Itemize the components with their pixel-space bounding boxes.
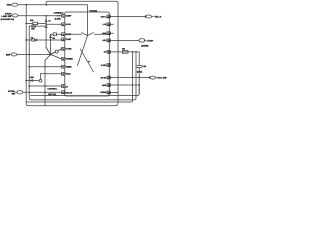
pin box R5: [107, 51, 110, 54]
pin box L6: [62, 57, 65, 60]
wire top rail T1 + loop right + loop bottom: [26, 1, 118, 106]
svg-text:(1.6W): (1.6W): [55, 17, 61, 20]
wire R9 stub: [110, 91, 118, 93]
svg-text:(3.4CP/4W ×2): (3.4CP/4W ×2): [1, 18, 15, 21]
label ACCEL SW: [8, 90, 16, 96]
pin box L3: [62, 33, 65, 36]
pin box R4: [107, 39, 110, 42]
wire R8 out: [110, 84, 139, 86]
wire to pin L9: [29, 85, 61, 87]
node star: [45, 48, 62, 61]
svg-text:CONTROL: CONTROL: [47, 88, 58, 91]
node E: [25, 80, 27, 82]
connector P2 STOP SW: [10, 14, 18, 17]
svg-text:TAIL R: TAIL R: [154, 15, 161, 18]
node C: [45, 15, 47, 17]
pin box L9: [62, 85, 65, 88]
svg-text:ACC SW: ACC SW: [158, 77, 168, 80]
resistor R1: [25, 22, 61, 24]
svg-text:COMP: COMP: [66, 15, 72, 18]
lamp L2: [55, 50, 58, 53]
pin box M1: [53, 33, 61, 36]
resistor R3: [122, 51, 128, 54]
wire busA: [31, 85, 140, 96]
svg-text:F DET: F DET: [66, 38, 72, 41]
diode LED1: [26, 79, 39, 81]
node G: [44, 85, 46, 87]
pin box L8: [62, 72, 65, 75]
svg-text:(21/5W): (21/5W): [141, 44, 148, 47]
wire R3 stub: [110, 32, 113, 34]
diode D1: [45, 16, 47, 48]
svg-text:OUT 1: OUT 1: [101, 15, 107, 18]
node K: [138, 77, 140, 79]
wire R5 out: [109, 51, 139, 53]
resistor R2: [25, 39, 61, 41]
svg-text:STOP: STOP: [147, 39, 153, 42]
pin box L1: [62, 14, 65, 17]
svg-text:P GND: P GND: [66, 48, 73, 51]
svg-text:1M: 1M: [122, 47, 125, 50]
wire W4 to pin L10: [23, 91, 62, 93]
node A: [25, 4, 27, 6]
svg-text:POWER: POWER: [66, 58, 74, 61]
wire v2 branch to L7: [29, 66, 61, 68]
node B: [45, 4, 47, 6]
IC pin labels left: [66, 15, 74, 95]
pin box L5: [62, 47, 65, 50]
wire R1 out to P4: [110, 16, 145, 18]
svg-text:L IN: L IN: [103, 23, 107, 26]
pin box R2: [107, 23, 110, 26]
svg-text:LED: LED: [30, 76, 35, 79]
diode ZD1: [49, 34, 53, 54]
svg-text:TIMER: TIMER: [66, 66, 73, 69]
node H: [44, 91, 46, 93]
connector P6: [150, 76, 158, 79]
label STOP LAMP SW: [2, 12, 12, 18]
pin box R7: [107, 76, 110, 79]
node D: [28, 54, 30, 56]
wire R7 out: [110, 77, 149, 79]
pin box L2: [62, 23, 65, 26]
pin box L4: [62, 38, 65, 41]
svg-text:V REF: V REF: [101, 64, 107, 67]
diode D2: [45, 25, 47, 27]
pin digits left: [62, 15, 65, 94]
connector P5: [139, 39, 146, 42]
svg-text:LO IN: LO IN: [66, 23, 72, 26]
pin digits right: [108, 16, 111, 95]
pin box R3: [107, 32, 110, 35]
svg-text:LAMP SW: LAMP SW: [2, 15, 12, 18]
wire busC: [26, 98, 132, 102]
wire star branch down: [44, 61, 46, 106]
svg-text:B/W: B/W: [6, 53, 10, 56]
wire down x132.6: [132, 52, 134, 98]
pin box R1: [107, 15, 110, 18]
svg-text:OSC IN: OSC IN: [66, 92, 73, 95]
IC pin labels right: [101, 15, 108, 94]
wire W1: [18, 4, 88, 6]
wire R2 stub: [110, 23, 113, 25]
connector P4: [145, 15, 153, 18]
capacitor C1: [137, 52, 142, 94]
pin box L10: [62, 91, 65, 94]
connector P3: [9, 53, 17, 56]
pin box R6: [107, 64, 110, 67]
resistor R4: [32, 25, 35, 27]
IC box U1: [65, 12, 110, 96]
node I: [132, 51, 134, 53]
wire R4 out: [110, 39, 139, 41]
pin box L7: [62, 65, 65, 68]
wire down x136: [135, 52, 137, 96]
pin box R8: [107, 84, 110, 87]
svg-text:PULS: PULS: [66, 73, 72, 76]
svg-text:GND: GND: [102, 84, 107, 87]
node F: [28, 85, 30, 87]
wire branch B2: [29, 25, 46, 27]
lamp L1: [58, 15, 61, 17]
interior arrow + X network: [65, 5, 107, 72]
node circle M2: [39, 79, 42, 82]
wire left bus v2: [29, 26, 136, 100]
node J: [135, 51, 137, 53]
svg-text:(0.01): (0.01): [137, 71, 143, 74]
svg-text:SW: SW: [12, 92, 15, 95]
node L: [138, 84, 140, 86]
svg-text:ADJ: ADJ: [103, 39, 107, 42]
svg-text:ST BY: ST BY: [101, 76, 107, 79]
connector P7 ACCEL SW: [15, 91, 22, 94]
wire W3: [17, 53, 51, 55]
svg-text:TAIL: TAIL: [6, 4, 11, 7]
connector P1 TAIL: [10, 3, 18, 6]
svg-text:WARN: WARN: [101, 91, 107, 94]
pin box R9: [107, 91, 110, 94]
wire LED to pin L8: [41, 74, 62, 79]
wire W2: [18, 15, 62, 17]
